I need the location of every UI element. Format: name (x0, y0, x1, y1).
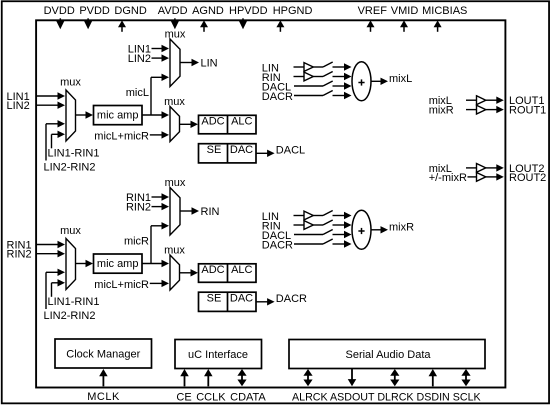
svg-text:mixR: mixR (429, 105, 454, 117)
svg-text:LIN: LIN (201, 58, 218, 70)
svg-text:ALC: ALC (231, 115, 252, 127)
svg-text:DACR: DACR (262, 239, 293, 251)
svg-text:micL+micR: micL+micR (94, 130, 149, 142)
svg-text:ALC: ALC (231, 264, 252, 276)
svg-text:MCLK: MCLK (87, 391, 120, 403)
svg-text:RIN2: RIN2 (126, 201, 151, 213)
svg-text:LIN2-RIN2: LIN2-RIN2 (44, 161, 96, 173)
svg-text:micR: micR (124, 236, 149, 248)
svg-text:mux: mux (165, 28, 186, 40)
svg-text:DACL: DACL (276, 145, 305, 157)
svg-text:SE: SE (207, 144, 222, 156)
svg-text:mux: mux (165, 177, 186, 189)
svg-text:mixL: mixL (389, 73, 412, 85)
svg-text:RIN2: RIN2 (7, 249, 32, 261)
svg-text:LIN2: LIN2 (128, 53, 151, 65)
svg-text:mux: mux (60, 225, 81, 237)
svg-text:micL+micR: micL+micR (94, 279, 149, 291)
svg-text:DAC: DAC (230, 292, 253, 304)
svg-text:+/-mixR: +/-mixR (429, 172, 467, 184)
svg-text:LIN2: LIN2 (7, 100, 30, 112)
svg-text:AVDD AGND HPVDD HPGND: AVDD AGND HPVDD HPGND (158, 5, 313, 17)
svg-text:uC Interface: uC Interface (188, 349, 248, 361)
svg-text:mux: mux (60, 76, 81, 88)
svg-text:RIN: RIN (201, 206, 220, 218)
svg-text:ROUT1: ROUT1 (509, 105, 546, 117)
svg-text:LIN1-RIN1: LIN1-RIN1 (48, 148, 100, 160)
svg-text:mic amp: mic amp (97, 110, 139, 122)
svg-text:ADC: ADC (201, 264, 224, 276)
svg-text:ADC: ADC (201, 115, 224, 127)
svg-text:VREF VMID MICBIAS: VREF VMID MICBIAS (358, 5, 468, 17)
svg-text:mux: mux (164, 244, 185, 256)
svg-text:SE: SE (207, 292, 222, 304)
svg-text:CE CCLK CDATA: CE CCLK CDATA (176, 392, 266, 404)
svg-text:DAC: DAC (230, 144, 253, 156)
svg-text:Serial Audio Data: Serial Audio Data (346, 349, 432, 361)
svg-text:micL: micL (126, 87, 149, 99)
svg-text:Clock Manager: Clock Manager (66, 348, 140, 360)
svg-text:ROUT2: ROUT2 (509, 172, 546, 184)
svg-text:mic amp: mic amp (97, 258, 139, 270)
svg-text:LIN1-RIN1: LIN1-RIN1 (48, 296, 100, 308)
svg-text:DACR: DACR (262, 91, 293, 103)
svg-text:DVDD PVDD DGND: DVDD PVDD DGND (44, 5, 147, 17)
svg-text:mixR: mixR (389, 221, 414, 233)
svg-text:mux: mux (164, 96, 185, 108)
svg-text:LIN2-RIN2: LIN2-RIN2 (44, 310, 96, 322)
svg-text:DACR: DACR (276, 293, 307, 305)
svg-text:ALRCK ASDOUT DLRCK DSDIN SCLK: ALRCK ASDOUT DLRCK DSDIN SCLK (292, 392, 482, 404)
